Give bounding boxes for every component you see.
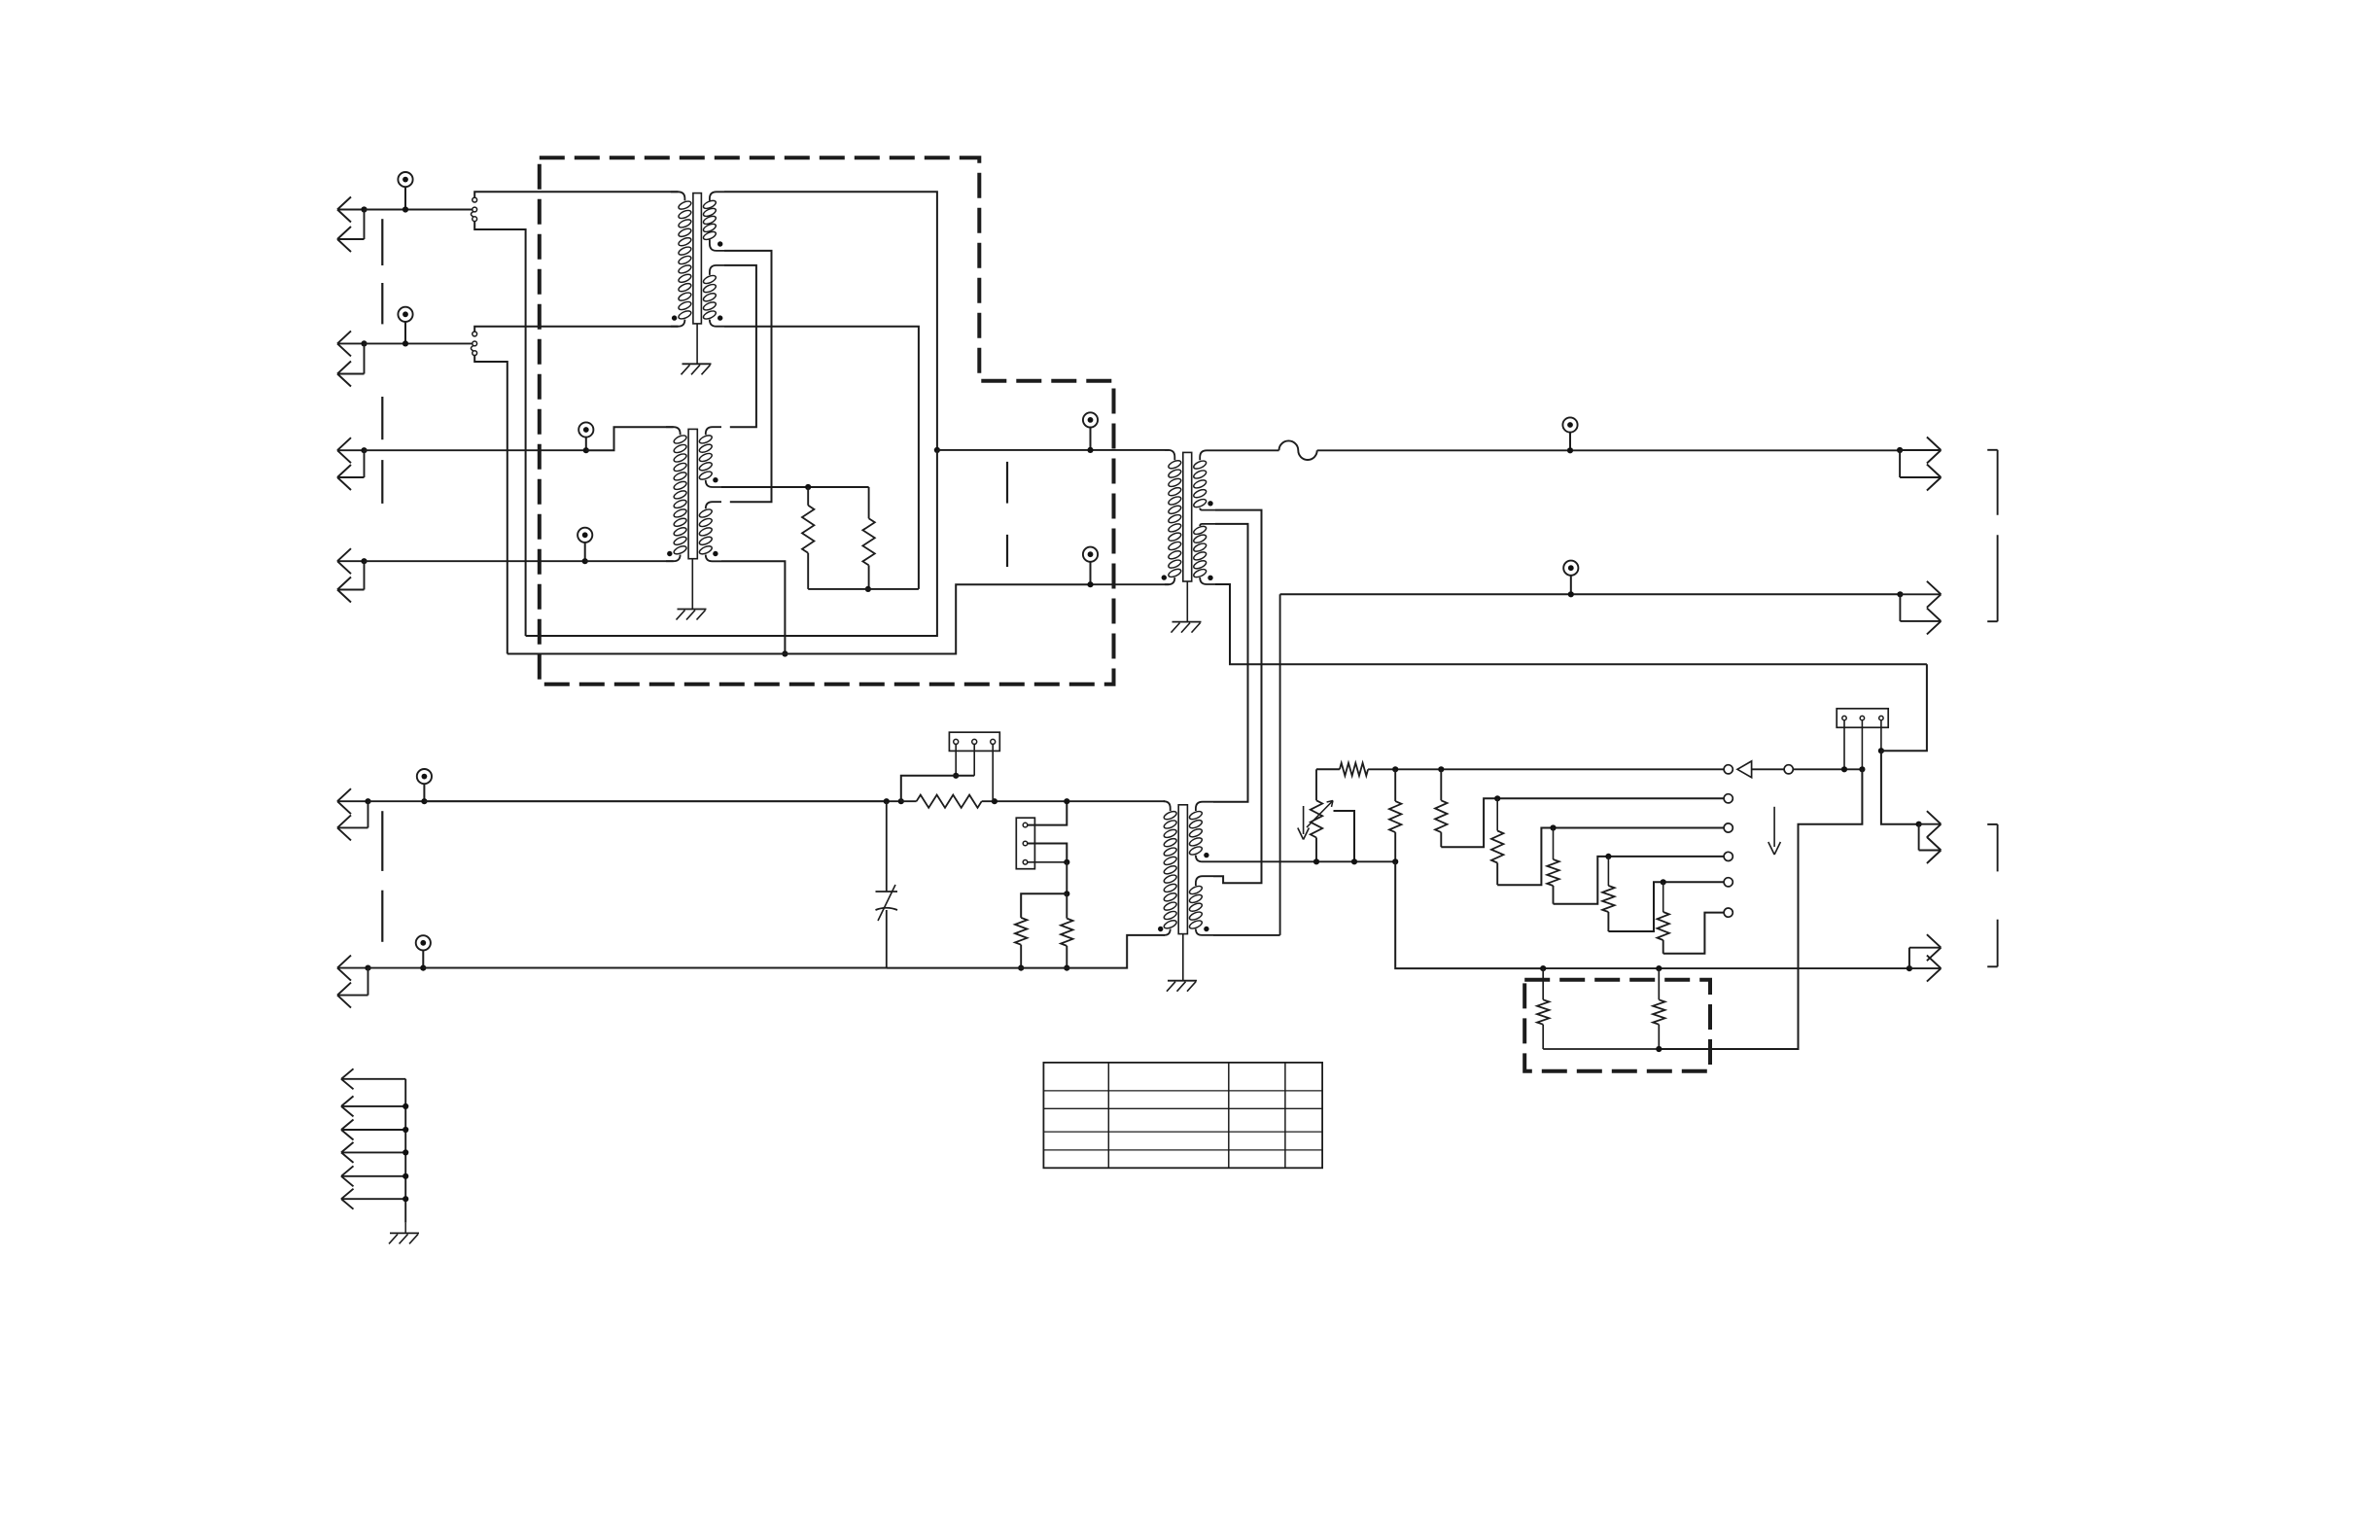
transformer T3 core [1183, 452, 1192, 581]
ground bus wire [404, 1079, 406, 1223]
VR1 rotation arrow [1303, 806, 1305, 834]
input pair 5 junction [365, 798, 370, 804]
test point TP4 [577, 528, 592, 542]
output pair 2 return arrow [1899, 594, 1901, 621]
transformer T2 secondary B winding [706, 502, 721, 508]
wire pair3 jog to T2 primary top [586, 427, 674, 450]
wire CN-B pin3 [1028, 861, 1067, 863]
transformer T4 secondary A dot [1204, 853, 1208, 857]
input connector pair 1 signal arrow [337, 209, 365, 211]
wire T4 secA bottom to attenuator common [1213, 860, 1395, 862]
test point TP6 [416, 935, 431, 950]
wire pair4 to T2 primary bottom [585, 560, 674, 562]
resistor R4a (termination) [1021, 893, 1067, 918]
wire T2 secB bottom drop [721, 561, 785, 653]
output pair 3 signal arrow [1919, 823, 1941, 825]
resistor R4b (termination) [1066, 893, 1067, 918]
node R10 top [1605, 854, 1611, 859]
wire wiper to CN-C pins [1793, 768, 1862, 770]
connector CN-C (3 pin) [1837, 709, 1888, 728]
switch S1 (pair 1 input select) [472, 197, 477, 202]
line isolation loop (crossover) [1279, 440, 1317, 460]
wire R10 to tap4 [1608, 882, 1724, 931]
resistor R2 (damping) [868, 487, 870, 518]
transformer T4 secondary B winding [1196, 876, 1213, 886]
transformer T3 secondary A winding [1200, 450, 1215, 460]
CN-A pin2 stem [973, 744, 975, 775]
transformer T1 core [693, 193, 702, 324]
wire T3 secA top to output line 1 [1215, 449, 1279, 451]
trimmer capacitor CV1 [886, 801, 888, 892]
wire input pair 6 to circuit [368, 967, 887, 969]
wire attenuator common down to output rail [1395, 861, 1543, 968]
input pair 6 junction [365, 965, 370, 971]
rotary switch contact 3 [1724, 823, 1732, 832]
output pair 4 junction [1907, 965, 1912, 971]
bracket output 1-2 [1987, 449, 1997, 451]
node attenuator common junction [1392, 858, 1398, 864]
wire T1 secA top to bus junction [724, 192, 937, 450]
ground bus junctions [402, 1103, 408, 1109]
transformer T4 secondary A winding [1196, 802, 1213, 811]
input pair 3 return arrow [364, 450, 366, 477]
input pair 3 junction [361, 447, 367, 453]
ground under T4 [1168, 980, 1197, 982]
wire input pair 4 to circuit [365, 560, 585, 562]
node R9 top [1550, 824, 1556, 830]
transformer T4 primary winding [1164, 801, 1171, 811]
node R8 top [1494, 795, 1500, 801]
input connector pair 6 signal arrow [337, 967, 368, 969]
resistor R13 (termination) [1658, 968, 1660, 999]
node R1/R2 bottom junction [865, 586, 871, 592]
transformer T4 core [1178, 805, 1187, 934]
wire CN-B to resistors [1066, 862, 1067, 894]
transformer T1 secondary A dot [717, 241, 722, 246]
output pair 1 junction [1897, 447, 1903, 453]
node CN-A loop junction [898, 798, 904, 804]
T2 screen stem [691, 559, 693, 610]
wire input pair 3 to circuit [365, 449, 586, 451]
wire attenuator input line [1441, 768, 1724, 770]
CN-A pin3 stem [992, 744, 994, 801]
transformer T3 secondary A dot [1207, 501, 1212, 506]
chassis ground symbol [390, 1232, 419, 1234]
resistor R9 (ladder) [1553, 828, 1555, 860]
rotary switch direction arrow [1773, 807, 1775, 847]
output pair 1 signal arrow [1900, 449, 1940, 451]
wire bypass rail 2 [507, 584, 1091, 653]
node CN-A pins junction [953, 773, 959, 779]
wire CN-C pin3 to output pair3 [1881, 751, 1919, 824]
rotary switch contact 6 [1724, 908, 1732, 917]
wire S1 top contact to T1 primary top [474, 192, 678, 197]
switch S2 (pair 2 input select) [472, 332, 477, 336]
transformer T2 core [688, 429, 697, 558]
input pair 1 return arrow [364, 210, 366, 240]
wire T2 secA bottom to R1/R2 top [721, 486, 869, 488]
transformer T2 primary dot [667, 551, 672, 556]
test point TP3 [578, 422, 593, 437]
wire CN-B pin2 [1028, 844, 1067, 862]
cable separator dashed line [1006, 462, 1008, 504]
wire pair5 toward R3 [424, 800, 900, 802]
test point TP-T3b [1083, 547, 1098, 562]
wire input pair 1 to circuit [365, 209, 472, 211]
wire line2 return loop to CN-C pin3 [1881, 664, 1927, 751]
resistor R8 (ladder) [1496, 798, 1498, 830]
transformer T4 secondary B dot [1204, 927, 1208, 931]
wire R bottoms to T1 secB return [808, 588, 919, 590]
wire S1 bottom contact bypass [474, 222, 525, 636]
input pair 4 junction [361, 558, 367, 564]
CN-C pin3 stem [1880, 720, 1882, 751]
input pair 1 junction [361, 206, 367, 212]
ground under T1 [682, 363, 712, 365]
attenuator input resistor R5 [1316, 768, 1340, 770]
node R7 top [1438, 766, 1444, 772]
transformer T1 primary dot [672, 315, 677, 320]
connector CN-B (3 pin) [1016, 818, 1034, 869]
node termination R12 top [1540, 965, 1546, 971]
wire input pair 2 to circuit [365, 342, 472, 344]
ground under T3 [1172, 621, 1202, 623]
ground under T2 [678, 609, 707, 611]
CN-A pin1 stem [955, 744, 957, 775]
rotary switch wiper terminal [1784, 765, 1793, 774]
input connector pair 2 signal arrow [337, 342, 365, 344]
wire T3 secB top to T4 secA top [1213, 524, 1248, 802]
wire output line 2 [1280, 593, 1901, 595]
resistor R6 (shunt) [1394, 769, 1396, 801]
input pair 5 return arrow [367, 801, 369, 827]
wire pair6 rail to T4 primary bottom [887, 935, 1165, 968]
transformer T1 secondary B dot [717, 315, 722, 320]
node R11 top [1661, 879, 1666, 885]
transformer T3 secondary B winding [1200, 524, 1215, 526]
node main bus junction [934, 447, 940, 453]
rotary switch contact 4 [1724, 852, 1732, 860]
node trimmer tap junction [884, 798, 890, 804]
resistor R1 (damping) [807, 487, 809, 506]
rotary switch contact 1 [1724, 765, 1732, 774]
CN-C pin1 stem [1843, 720, 1845, 770]
resistor R7 (ladder) [1440, 769, 1442, 800]
T3 screen stem [1186, 581, 1188, 622]
wire R8 to tap2 [1497, 828, 1724, 886]
test point TP-out1 [1562, 417, 1577, 432]
test point TP-out2 [1563, 561, 1578, 576]
node R6 top [1392, 766, 1398, 772]
transformer T2 secondary B dot [713, 551, 717, 556]
wire T1 secB top to T2 secA top [724, 265, 756, 427]
transformer T3 primary winding [1165, 450, 1174, 460]
transformer T1 secondary B winding [710, 265, 724, 275]
node termination R13 top [1656, 965, 1662, 971]
resistor R12 (termination) [1542, 968, 1544, 999]
bracket output 3-4 [1987, 823, 1997, 825]
test point TP1 [398, 172, 412, 187]
test point TP5 [417, 769, 432, 784]
chassis ground arrows [341, 1078, 405, 1080]
node R1 top junction [805, 484, 811, 490]
wire S2 bottom contact bypass [474, 356, 507, 654]
wire T4 secB bottom to line2 return [1213, 934, 1280, 936]
wire input pair 5 to circuit [368, 800, 887, 802]
node CN-A pin3 junction [992, 798, 997, 804]
T4 screen stem [1182, 934, 1184, 981]
rotary switch contact 5 [1724, 878, 1732, 887]
wire R3 out to T4 primary top [1067, 800, 1165, 802]
wire output line 1 [1317, 449, 1900, 451]
transformer T2 secondary A dot [713, 477, 717, 482]
transformer T3 secondary B dot [1207, 576, 1212, 580]
wire line2 to T4 return [1279, 594, 1281, 935]
test point TP2 [398, 307, 412, 322]
wire R12 to R13 bottom [1543, 1048, 1659, 1050]
wire CN-C pin2 to attenuator ground [1659, 769, 1862, 1049]
test point TP-bus [1083, 412, 1098, 427]
output pair 4 signal arrow [1908, 948, 1910, 968]
input pair 4 return arrow [364, 561, 366, 589]
ground bus stem [404, 1223, 406, 1234]
parts table [1043, 1063, 1322, 1168]
transformer T2 secondary A winding [706, 427, 721, 435]
CN-C pin2 stem [1861, 720, 1863, 770]
wire CN-B pin1 to line [1028, 801, 1067, 824]
wire pair6 toward T4 [423, 967, 887, 969]
node pot bottom [1313, 858, 1319, 864]
input pair 2 return arrow [364, 343, 366, 373]
node secB return junction [782, 650, 787, 656]
wire output rail 4 [1543, 967, 1909, 969]
wire S2 top contact to T1 primary bottom [474, 327, 678, 332]
wire T1 secA bottom to T2 secB top [724, 251, 772, 502]
wire R11 to tap5 [1663, 913, 1725, 954]
wire T3 secB bottom drop [1215, 584, 1927, 664]
potentiometer VR1 [1315, 769, 1317, 800]
resistor R11 (ladder) [1662, 882, 1664, 912]
output pair 3 junction [1916, 822, 1922, 827]
rotary switch contact 2 [1724, 794, 1732, 803]
wire T3 secA bottom to T4 secB top [1213, 510, 1262, 884]
cable separator dashed line [381, 219, 383, 265]
input pair 6 return arrow [367, 968, 369, 996]
resistor R10 (ladder) [1607, 857, 1609, 886]
wire CN-A pins to line [901, 776, 974, 801]
shield enclosure dashed box (input transformers) [540, 157, 1114, 684]
wire R7 to tap1 [1441, 798, 1724, 847]
wire main bus to T3 primary top [937, 449, 1170, 451]
resistor R3 (series pad) [917, 795, 982, 808]
output pair 3 return arrow [1918, 824, 1920, 851]
output pair 2 junction [1897, 591, 1903, 597]
wire T1 secB bottom to load resistors [724, 327, 919, 589]
wire to T3 primary bottom [1091, 583, 1170, 585]
wire R9 to tap3 [1554, 857, 1725, 904]
rotary switch wiper triangle [1737, 761, 1752, 778]
transformer T1 secondary A winding [710, 192, 724, 200]
output pair 1 return arrow [1899, 450, 1901, 477]
input connector pair 5 signal arrow [337, 800, 368, 802]
VR1 wiper wire [1334, 811, 1355, 861]
T1 screen stem [696, 324, 698, 364]
input connector pair 3 signal arrow [337, 449, 365, 451]
wire bus junction down to bypass rail [526, 450, 937, 636]
output pair 2 signal arrow [1900, 593, 1940, 595]
transformer T3 primary dot [1162, 575, 1167, 579]
transformer T2 primary winding [666, 427, 681, 435]
output pair 4 return arrow [1909, 967, 1941, 969]
transformer T4 primary dot [1158, 927, 1163, 931]
input connector pair 4 signal arrow [337, 560, 365, 562]
transformer T1 primary winding [671, 192, 684, 200]
connector CN-A (3 pin) [949, 732, 999, 751]
input pair 2 junction [361, 340, 367, 346]
termination dashed box [1524, 980, 1710, 1071]
